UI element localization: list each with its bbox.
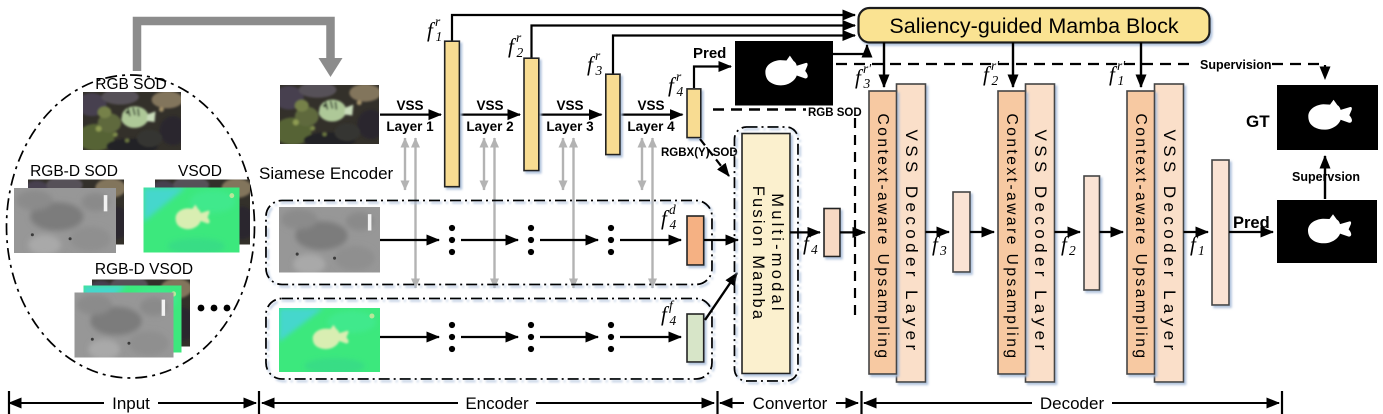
svg-text:fr4: fr4 [668,69,684,99]
svg-text:fr′2: fr′2 [983,58,1000,88]
axis convertor tick [716,391,718,414]
pred mask to saliency block wire [833,45,867,54]
depth branch box [266,201,712,285]
decoder stage 3 context-aware upsampling bar [1127,91,1155,374]
encoder input RGB image [274,82,385,148]
VSOD back image [149,176,255,249]
RGB-D SOD back image [22,176,130,249]
svg-text:Siamese Encoder: Siamese Encoder [259,164,394,183]
svg-text:Context-aware Upsampling: Context-aware Upsampling [874,114,891,361]
encoder feature line f1r to saliency block [452,15,855,41]
svg-text:Input: Input [112,394,150,413]
decoder stage 1 VSS decoder layer bar [897,84,926,382]
wire f4 to decoder [840,231,865,233]
decoder stage 2 VSS decoder layer bar [1026,84,1055,382]
encoder bar f1r [445,41,460,187]
svg-text:fd4: fd4 [661,202,677,232]
depth branch wire 2 [461,239,518,241]
svg-text:fr′1: fr′1 [1109,58,1126,88]
svg-text:Multi-modal: Multi-modal [768,193,786,313]
RGB SOD dashed callout line [713,108,806,110]
wire f3 to stage2 [970,231,994,233]
vertical dashed line left of decoder [854,118,856,320]
supervision dashed line [836,63,1196,65]
flow branch dots 1 [449,322,455,352]
RGB SOD image [77,89,187,154]
wire f1 to pred [1229,231,1273,233]
RGB-D SOD depth image [14,188,116,255]
svg-text:Fusion Mamba: Fusion Mamba [749,186,767,322]
saliency to decoder arrow 1 [883,43,885,88]
feature bar f2 [1084,176,1100,290]
wire vss3 to f1 [1184,231,1209,233]
RGB-D VSOD front depth image [75,293,174,360]
VSS layer 4 arrow [620,113,683,115]
pred RGB SOD mask image [735,41,833,106]
siamese gray arrows pair 3 [562,138,564,190]
svg-text:RGB SOD: RGB SOD [95,76,166,93]
depth branch dots 2 [528,225,534,255]
svg-text:VSS Decoder Layer: VSS Decoder Layer [902,129,921,354]
encoder bar f2r [524,58,539,170]
depth branch dots 1 [449,225,455,255]
feature bar f4f [687,314,704,362]
flow branch image [279,308,380,374]
saliency-guided mamba block [859,8,1210,43]
svg-text:VSOD: VSOD [178,163,222,180]
svg-text:RGBX(Y) SOD: RGBX(Y) SOD [661,147,738,159]
RGBX(Y) SOD dashed arrow [700,139,729,176]
flow branch wire 3 [540,336,598,338]
axis decoder right segment [1112,402,1279,404]
axis decoder left segment [864,402,1032,404]
feature bar f1 [1212,160,1229,305]
svg-text:Context-aware Upsampling: Context-aware Upsampling [1003,114,1020,361]
svg-text:Decoder: Decoder [1040,394,1105,413]
svg-text:f1: f1 [1190,232,1205,258]
encoder feature line f2r to saliency block [532,26,856,59]
axis convertor right segment [836,402,858,404]
axis input start tick [8,391,10,414]
pred arrow from f4r bar to pred image [694,67,731,89]
axis input segment [9,402,104,404]
decoder stage 3 VSS decoder layer bar [1155,84,1184,382]
svg-text:RGB-D VSOD: RGB-D VSOD [95,261,193,278]
pred output mask image [1277,200,1377,263]
flow branch dots 2 [528,322,534,352]
saliency to decoder arrow 3 [1140,43,1142,88]
axis input right segment [158,402,256,404]
axis decoder tick [860,391,862,414]
flow branch wire 4 [620,336,681,338]
svg-text:Layer 1: Layer 1 [386,119,434,134]
feature bar f4d [687,216,704,265]
svg-text:RGB SOD: RGB SOD [808,107,862,119]
depth branch wire 1 [380,239,439,241]
axis convertor left segment [720,402,744,404]
svg-text:fr2: fr2 [508,30,524,60]
svg-text:Supervision: Supervision [1200,58,1272,72]
supervision arrow pred to GT [1324,156,1326,199]
svg-text:f3: f3 [932,232,947,258]
input ellipse [7,75,255,378]
svg-text:Layer 2: Layer 2 [466,119,513,134]
multi-modal fusion mamba box [742,134,790,374]
axis encoder tick [258,391,260,414]
svg-text:Layer 3: Layer 3 [546,119,594,134]
svg-text:fr′3: fr′3 [855,61,872,91]
VSS layer 2 arrow [460,113,521,115]
saliency to decoder arrow 2 [1012,43,1014,88]
feature bar f4 [824,209,840,257]
svg-text:VSS: VSS [396,98,423,113]
axis encoder right segment [536,402,714,404]
svg-text:fr3: fr3 [587,48,603,78]
svg-text:VSS: VSS [637,98,664,113]
svg-text:Convertor: Convertor [753,394,828,413]
svg-text:Layer 4: Layer 4 [627,119,675,134]
feature bar f3 [953,192,970,272]
encoder bar f4r [687,89,701,138]
siamese gray arrows pair 2 [483,138,485,190]
siamese gray arrows pair 1 [404,138,406,190]
wire f4d to fusion [704,239,738,241]
svg-text:GT: GT [1246,112,1270,131]
GT image [1277,85,1378,150]
svg-text:f4: f4 [803,231,818,257]
wire fusion to f4 bar [790,231,820,233]
svg-text:Context-aware Upsampling: Context-aware Upsampling [1132,114,1149,361]
decoder stage 2 context-aware upsampling bar [998,91,1026,374]
flow branch box [266,299,712,380]
svg-text:fr1: fr1 [427,14,442,44]
flow branch dots 3 [608,322,614,352]
depth branch wire 3 [540,239,598,241]
convertor dashdot container [735,127,799,381]
VSS layer 1 arrow [380,113,441,115]
VSS layer 3 arrow [539,113,602,115]
axis end tick [1281,391,1283,414]
depth branch image [279,207,380,275]
svg-text:VSS: VSS [476,98,503,113]
svg-text:VSS Decoder Layer: VSS Decoder Layer [1160,129,1179,354]
ellipsis dots [198,305,231,312]
depth branch dots 3 [608,225,614,255]
wire vss2 to f2 [1055,231,1081,233]
encoder feature line f3r to saliency block [613,36,855,75]
flow branch wire 1 [380,336,439,338]
depth branch wire 4 [620,239,681,241]
svg-text:Encoder: Encoder [465,394,529,413]
flow branch wire 2 [461,336,518,338]
RGB-D VSOD back image [86,276,196,351]
svg-text:ff4: ff4 [661,298,677,328]
svg-text:Saliency-guided Mamba Block: Saliency-guided Mamba Block [889,14,1178,38]
svg-text:RGB-D SOD: RGB-D SOD [30,163,118,180]
encoder bar f3r [606,74,620,154]
svg-text:VSS: VSS [556,98,583,113]
decoder stage 1 context-aware upsampling bar [869,91,897,374]
thick gray elbow arrow [137,21,331,71]
svg-text:Pred: Pred [1233,214,1270,232]
wire vss1 to f3 [926,231,950,233]
svg-text:VSS Decoder Layer: VSS Decoder Layer [1031,129,1050,354]
svg-text:Pred: Pred [693,45,726,62]
axis encoder left segment [262,402,458,404]
wire f2 to stage3 [1100,231,1124,233]
siamese gray arrows pair 4 [641,138,643,190]
RGB-D VSOD middle flow image [84,286,182,355]
VSOD flow image [144,188,240,255]
diagonal wire f4f to fusion [705,273,737,320]
svg-text:f2: f2 [1061,232,1076,258]
